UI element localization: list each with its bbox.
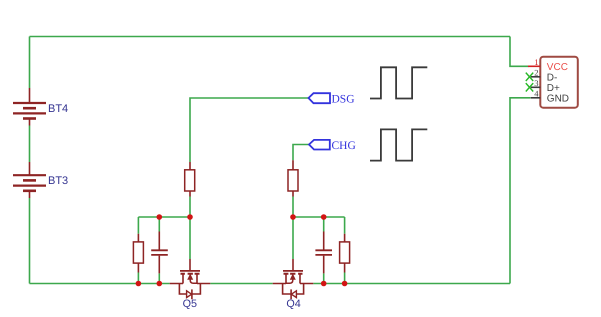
wire left gate network horizontal: [138, 216, 190, 218]
svg-text:2: 2: [534, 68, 538, 78]
resistor R-CHG: [288, 160, 298, 196]
junction R3 bottom: [136, 281, 142, 287]
svg-text:1: 1: [534, 57, 538, 67]
battery BT3: [13, 162, 46, 198]
junction R4 bottom: [342, 281, 348, 287]
svg-text:DSG: DSG: [332, 94, 355, 106]
waveform CHG: [370, 129, 427, 160]
no-connect X pin 3: [526, 83, 533, 91]
transistor Q5: [170, 259, 211, 299]
connector pin 2 stub: [531, 76, 541, 78]
capacitor C1 (left gate-source): [151, 232, 168, 274]
junction C2 top: [321, 214, 327, 220]
junction C1 bottom: [157, 281, 163, 287]
capacitor C2 (right gate-source): [315, 232, 332, 274]
port CHG: [309, 140, 330, 150]
junction Q5 gate line: [187, 214, 193, 220]
wire right vertical from pin4: [510, 98, 531, 284]
wire right vertical to pin1: [510, 37, 529, 67]
svg-text:GND: GND: [547, 93, 569, 104]
connector pin 1 stub: [528, 65, 540, 67]
svg-text:Q4: Q4: [286, 298, 300, 310]
svg-text:3: 3: [534, 78, 538, 88]
junction C2 bottom: [321, 281, 327, 287]
svg-text:D+: D+: [547, 83, 560, 94]
connector U1 box: [540, 57, 578, 108]
wire CHG resistor to gate: [292, 197, 294, 260]
resistor R-DSG: [185, 162, 195, 197]
wire right gate network horizontal: [293, 216, 345, 218]
transistor Q4: [273, 259, 314, 299]
wire left C1 branch: [158, 217, 160, 284]
svg-text:Q5: Q5: [183, 298, 197, 310]
svg-text:BT4: BT4: [48, 103, 68, 115]
wire DSG net: [190, 98, 309, 162]
junction C1 top: [157, 214, 163, 220]
svg-text:BT3: BT3: [48, 175, 68, 187]
wire bottom rail: [30, 283, 511, 285]
resistor R3 (left gate-source): [133, 234, 143, 273]
svg-text:VCC: VCC: [547, 62, 568, 73]
port DSG: [309, 93, 331, 103]
junction Q4 gate line: [290, 214, 296, 220]
wire DSG resistor to gate: [189, 197, 191, 260]
connector pin 3 stub: [531, 86, 541, 88]
resistor R4 (right gate-source): [340, 234, 350, 273]
svg-text:CHG: CHG: [332, 140, 356, 152]
svg-text:D-: D-: [547, 72, 558, 83]
wire right R4 branch: [344, 217, 346, 284]
wire left R3 branch: [137, 217, 139, 284]
wire CHG net: [293, 145, 309, 161]
battery BT4: [13, 88, 46, 126]
connector pin 4 stub: [531, 97, 541, 99]
wire right C2 branch: [323, 217, 325, 284]
waveform DSG: [370, 67, 427, 98]
wire top rail: [30, 36, 511, 38]
wire left vertical (battery string): [29, 37, 31, 284]
no-connect X pin 2: [526, 73, 533, 81]
